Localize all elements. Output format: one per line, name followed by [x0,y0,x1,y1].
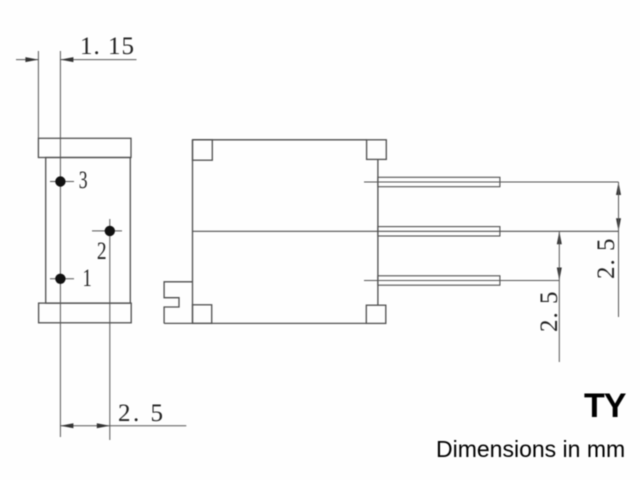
svg-text:1. 15: 1. 15 [80,33,135,60]
svg-text:3: 3 [79,167,89,194]
svg-text:2: 2 [97,238,108,265]
svg-text:Dimensions in mm: Dimensions in mm [436,436,625,462]
svg-text:1: 1 [83,265,93,292]
svg-text:TY: TY [584,387,627,425]
svg-text:2. 5: 2. 5 [593,238,620,280]
svg-text:2. 5: 2. 5 [536,291,563,333]
svg-text:2. 5: 2. 5 [118,400,166,427]
